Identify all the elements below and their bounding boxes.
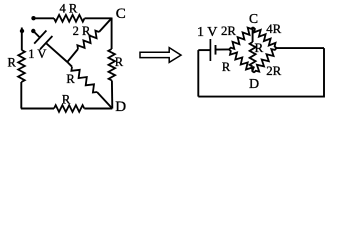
svg-text:4 R: 4 R <box>59 2 77 16</box>
svg-text:1 V: 1 V <box>28 47 46 61</box>
wire - middle resistor to node D with arrowhead <box>252 67 254 72</box>
node A (top-left junction dot) <box>31 16 35 20</box>
svg-text:2R: 2R <box>221 24 236 38</box>
wire - bottom resistor to bottom-left corner <box>21 108 54 110</box>
wire - 2R zigzag to middle junction <box>67 49 78 62</box>
wire - middle junction to R diagonal <box>67 62 72 67</box>
resistor 2R diagonal zigzag <box>77 31 99 49</box>
resistor R (right side vertical) <box>108 49 115 81</box>
resistor R (left side vertical) <box>18 50 25 82</box>
wire - outer loop right top to node R <box>277 47 325 49</box>
svg-text:D: D <box>115 99 126 115</box>
wire - resistor 4R to corner C <box>85 17 112 19</box>
svg-text:R: R <box>8 56 17 70</box>
resistor R (bottom wire) <box>54 105 84 112</box>
battery cell plate 2 <box>40 36 52 49</box>
resistor 2R diagonal: corner C to middle junction, straight lead <box>99 18 112 32</box>
arrow symbol (implies, left figure to right figure) <box>140 48 181 63</box>
resistor R diagonal: middle junction toward D, zigzag <box>71 67 97 93</box>
svg-text:C: C <box>249 11 258 26</box>
resistor R (bridge middle vertical) <box>252 27 254 42</box>
resistor R (bridge lower-left arm) <box>229 49 254 72</box>
wire - battery to middle junction <box>47 44 68 62</box>
wire - resistor R to corner D <box>111 81 113 109</box>
svg-text:C: C <box>116 6 126 22</box>
wire - top, node A to resistor 4R <box>34 17 55 19</box>
resistor 2R (bridge lower-right arm) <box>254 48 277 73</box>
svg-text:4R: 4R <box>266 22 281 36</box>
wire - right side, C down to resistor R <box>111 18 113 50</box>
wire - R diagonal to corner D <box>97 92 112 109</box>
wire - battery branch upper segment <box>33 31 40 38</box>
wire - outer loop left, from battery down <box>197 50 199 97</box>
svg-text:2R: 2R <box>266 64 281 78</box>
resistor 4R (bridge upper-right arm) <box>253 27 277 48</box>
svg-text:D: D <box>249 77 259 92</box>
svg-text:2 R: 2 R <box>73 24 91 38</box>
svg-text:R: R <box>66 72 75 86</box>
resistor 2R (bridge upper-left arm) <box>229 27 253 49</box>
svg-text:R: R <box>254 40 263 55</box>
wire - battery to bridge node L <box>216 48 230 50</box>
wire - battery left lead <box>198 49 210 51</box>
wire - outer loop bottom <box>198 48 324 97</box>
svg-text:R: R <box>62 93 71 107</box>
node B (left branch terminal dot) <box>20 29 24 33</box>
battery short plate (right figure) <box>215 45 217 55</box>
wire - left side vertical <box>20 82 22 109</box>
svg-text:1 V: 1 V <box>197 25 217 40</box>
battery long plate (right figure) <box>209 39 211 61</box>
svg-text:R: R <box>222 60 231 74</box>
wire - left vertical top stub <box>21 28 23 51</box>
node E (battery branch terminal dot) <box>31 29 35 33</box>
battery cell plate 1 <box>34 31 46 44</box>
svg-text:R: R <box>115 55 124 69</box>
resistor 4R (top wire) <box>54 15 85 22</box>
wire - bottom, D to resistor R <box>84 108 112 110</box>
